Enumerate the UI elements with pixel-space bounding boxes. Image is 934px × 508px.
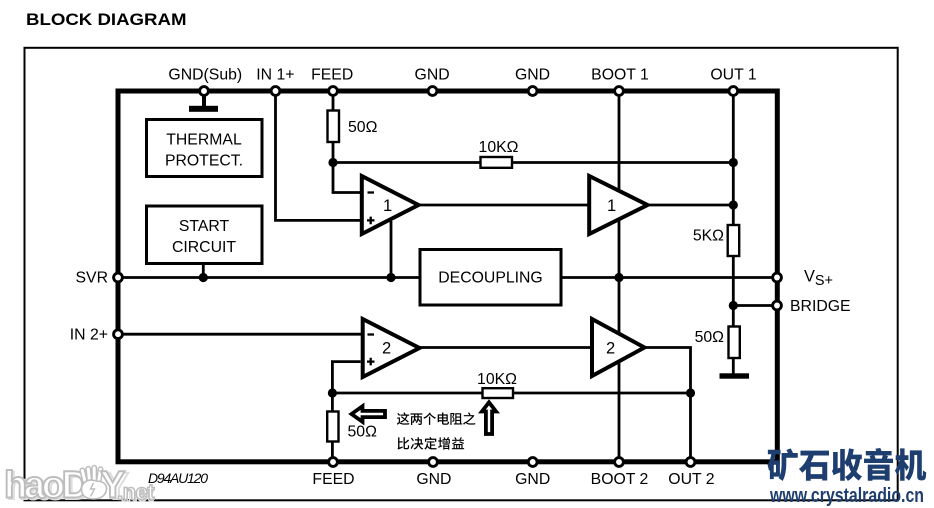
svg-text:THERMAL: THERMAL [166, 132, 242, 149]
wire 50 ohm to ground stem [732, 358, 735, 375]
pin label GND bottom 2 [515, 471, 550, 488]
pin IN 1+ [271, 87, 280, 96]
pin BOOT 2 [615, 458, 624, 467]
svg-text:SVR: SVR [76, 270, 108, 287]
svg-text:haoD: haoD [4, 465, 88, 507]
svg-text:1: 1 [607, 197, 616, 215]
svg-text:GND: GND [415, 67, 450, 84]
svg-text:.net: .net [117, 480, 155, 505]
pin BRIDGE [773, 301, 782, 310]
resistor R1 50 ohm (upper feedback) [328, 111, 378, 143]
node junction bias vertical on SVR line [386, 273, 395, 282]
pin label IN 2+ [70, 327, 108, 344]
pin label SVR [76, 270, 108, 287]
wire START CIRCUIT stem [202, 264, 205, 278]
wire op-amp 2 output to power amp 2 [418, 346, 593, 349]
pin FEED 1 [329, 87, 338, 96]
pin label BOOT 1 [591, 67, 649, 84]
wire feedback node to resistor R5 [331, 393, 334, 412]
wire SVR horizontal [120, 276, 420, 279]
svg-text:50Ω: 50Ω [348, 424, 378, 441]
node junction feedback 2 left [328, 388, 337, 397]
node junction power amp 1 output at OUT 1 [729, 200, 738, 209]
wire op-amp 2 non-inverting input to feedback node [332, 362, 360, 393]
wire IN 2+ to op-amp 2 inverting input [120, 333, 361, 336]
power amp U2 output stage 1 [589, 176, 647, 234]
annotation arrow pointing up at R6 [482, 402, 496, 434]
op-amp U1 input stage 1 [362, 176, 419, 234]
pin GND bottom 2 [528, 458, 537, 467]
pin FEED 2 [329, 458, 338, 467]
pin OUT 2 [686, 458, 695, 467]
svg-text:IN 2+: IN 2+ [70, 327, 108, 344]
wire R5 to FEED 2 pin [331, 441, 334, 460]
wire GND(Sub) ground stem [202, 93, 206, 107]
pin label IN 1+ [256, 67, 294, 84]
wire feedback 2 right segment [512, 392, 691, 395]
svg-text:1: 1 [383, 197, 392, 215]
svg-text:50Ω: 50Ω [348, 119, 378, 136]
svg-text:CIRCUIT: CIRCUIT [172, 239, 236, 256]
ground symbol at GND(Sub) [189, 106, 218, 112]
svg-text:GND: GND [416, 471, 451, 488]
pin GND top 1 [428, 87, 437, 96]
pin GND(Sub) [200, 87, 209, 96]
wire OUT 1 vertical upper [732, 93, 735, 226]
pin label FEED 1 [311, 67, 353, 84]
svg-text:BLOCK DIAGRAM: BLOCK DIAGRAM [26, 11, 187, 29]
svg-text:GND(Sub): GND(Sub) [168, 67, 242, 84]
svg-text:10KΩ: 10KΩ [477, 371, 517, 388]
wire power amp 1 output to OUT 1 node [647, 204, 733, 207]
annotation text line 1: 这两个电阻之 [397, 412, 476, 425]
node junction START stem on SVR line [199, 273, 208, 282]
svg-text:OUT 1: OUT 1 [710, 67, 756, 84]
pin label OUT 1 [710, 67, 756, 84]
wire op-amp 1 bias vertical [390, 221, 393, 278]
wire power amp 2 output to OUT 2 [643, 348, 691, 460]
svg-text:BRIDGE: BRIDGE [790, 298, 851, 315]
svg-text:2: 2 [382, 340, 391, 358]
svg-text:FEED: FEED [312, 471, 354, 488]
box THERMAL PROTECT. [147, 120, 263, 177]
svg-text:BOOT 2: BOOT 2 [591, 471, 649, 488]
node junction bridge divider [729, 301, 738, 310]
pin label OUT 2 [668, 471, 714, 488]
svg-text:2: 2 [606, 340, 615, 358]
node junction feedback 1 at OUT 1 [729, 158, 738, 167]
svg-text:BOOT 1: BOOT 1 [591, 67, 649, 84]
svg-text:PROTECT.: PROTECT. [165, 153, 243, 170]
wire DECOUPLING to VS+ [561, 276, 775, 279]
op-amp U3 input stage 2 [363, 319, 420, 377]
node A junction (feedback 1 / R1) [328, 158, 337, 167]
svg-text:START: START [179, 218, 230, 235]
pin label VS+ [804, 268, 833, 290]
watermark haoDIY.net [4, 465, 155, 508]
pin label GND bottom 1 [416, 471, 451, 488]
node junction feedback 2 at OUT 2 [686, 388, 695, 397]
svg-text:D94AU120: D94AU120 [148, 470, 208, 486]
IC boundary box [118, 91, 777, 462]
pin label FEED 2 [312, 471, 354, 488]
wire FEED pin to resistor R1 [332, 93, 335, 111]
node junction BOOT vertical on decoupling line [614, 273, 623, 282]
box START CIRCUIT [147, 206, 263, 264]
svg-text:OUT 2: OUT 2 [668, 471, 714, 488]
pin label GND top 1 [415, 67, 450, 84]
pin VS+ [773, 273, 782, 282]
part number label D94AU120 [148, 470, 208, 486]
resistor R2 10K ohm (upper feedback) [479, 139, 519, 168]
wire feedback 1 right segment [512, 161, 734, 164]
pin SVR [114, 273, 123, 282]
pin GND top 2 [528, 87, 537, 96]
resistor R6 10K ohm (lower feedback) [477, 371, 517, 398]
watermark url www.crystalradio.cn [769, 484, 924, 507]
wire feedback 1 left segment [333, 161, 481, 164]
pin BOOT 1 [615, 87, 624, 96]
pin label BRIDGE [790, 298, 851, 315]
wire OUT 1 vertical lower through bridge node [732, 256, 735, 328]
ground symbol below 50 ohm bridge resistor [720, 373, 750, 378]
svg-text:GND: GND [515, 67, 550, 84]
svg-text:www.crystalradio.cn: www.crystalradio.cn [769, 484, 924, 507]
svg-text:FEED: FEED [311, 67, 353, 84]
annotation text line 2: 比决定增益 [397, 437, 464, 450]
pin GND bottom 1 [429, 458, 438, 467]
power amp U4 output stage 2 [592, 319, 645, 376]
svg-text:5KΩ: 5KΩ [693, 228, 724, 245]
svg-text:IN 1+: IN 1+ [256, 67, 294, 84]
pin IN 2+ [114, 330, 123, 339]
wire IN 1+ pin to op-amp 1 non-inverting input [276, 93, 361, 220]
wire op-amp 1 output to power amp 1 [418, 204, 590, 207]
wire node A to op-amp 1 inverting input [333, 163, 361, 193]
wire BOOT 1 to BOOT 2 vertical [618, 93, 621, 460]
svg-text:50Ω: 50Ω [695, 329, 725, 346]
resistor R5 50 ohm (lower feedback) [327, 412, 377, 442]
svg-text:DECOUPLING: DECOUPLING [438, 270, 542, 287]
box DECOUPLING [420, 250, 561, 306]
wire feedback 2 left segment [332, 392, 482, 395]
svg-text:GND: GND [515, 471, 550, 488]
pin label GND(Sub) [168, 67, 242, 84]
pin label BOOT 2 [591, 471, 649, 488]
pin OUT 1 [729, 87, 738, 96]
wire R1 to node A [332, 141, 335, 164]
watermark logo text 矿石收音机 [767, 448, 926, 481]
resistor R3 5K ohm [693, 225, 739, 256]
wire bridge node to BRIDGE pin [733, 304, 775, 307]
pin label GND top 2 [515, 67, 550, 84]
resistor R4 50 ohm (bridge divider) [695, 327, 740, 359]
svg-text:10KΩ: 10KΩ [479, 139, 519, 156]
annotation arrow pointing left at R5 [352, 406, 386, 422]
